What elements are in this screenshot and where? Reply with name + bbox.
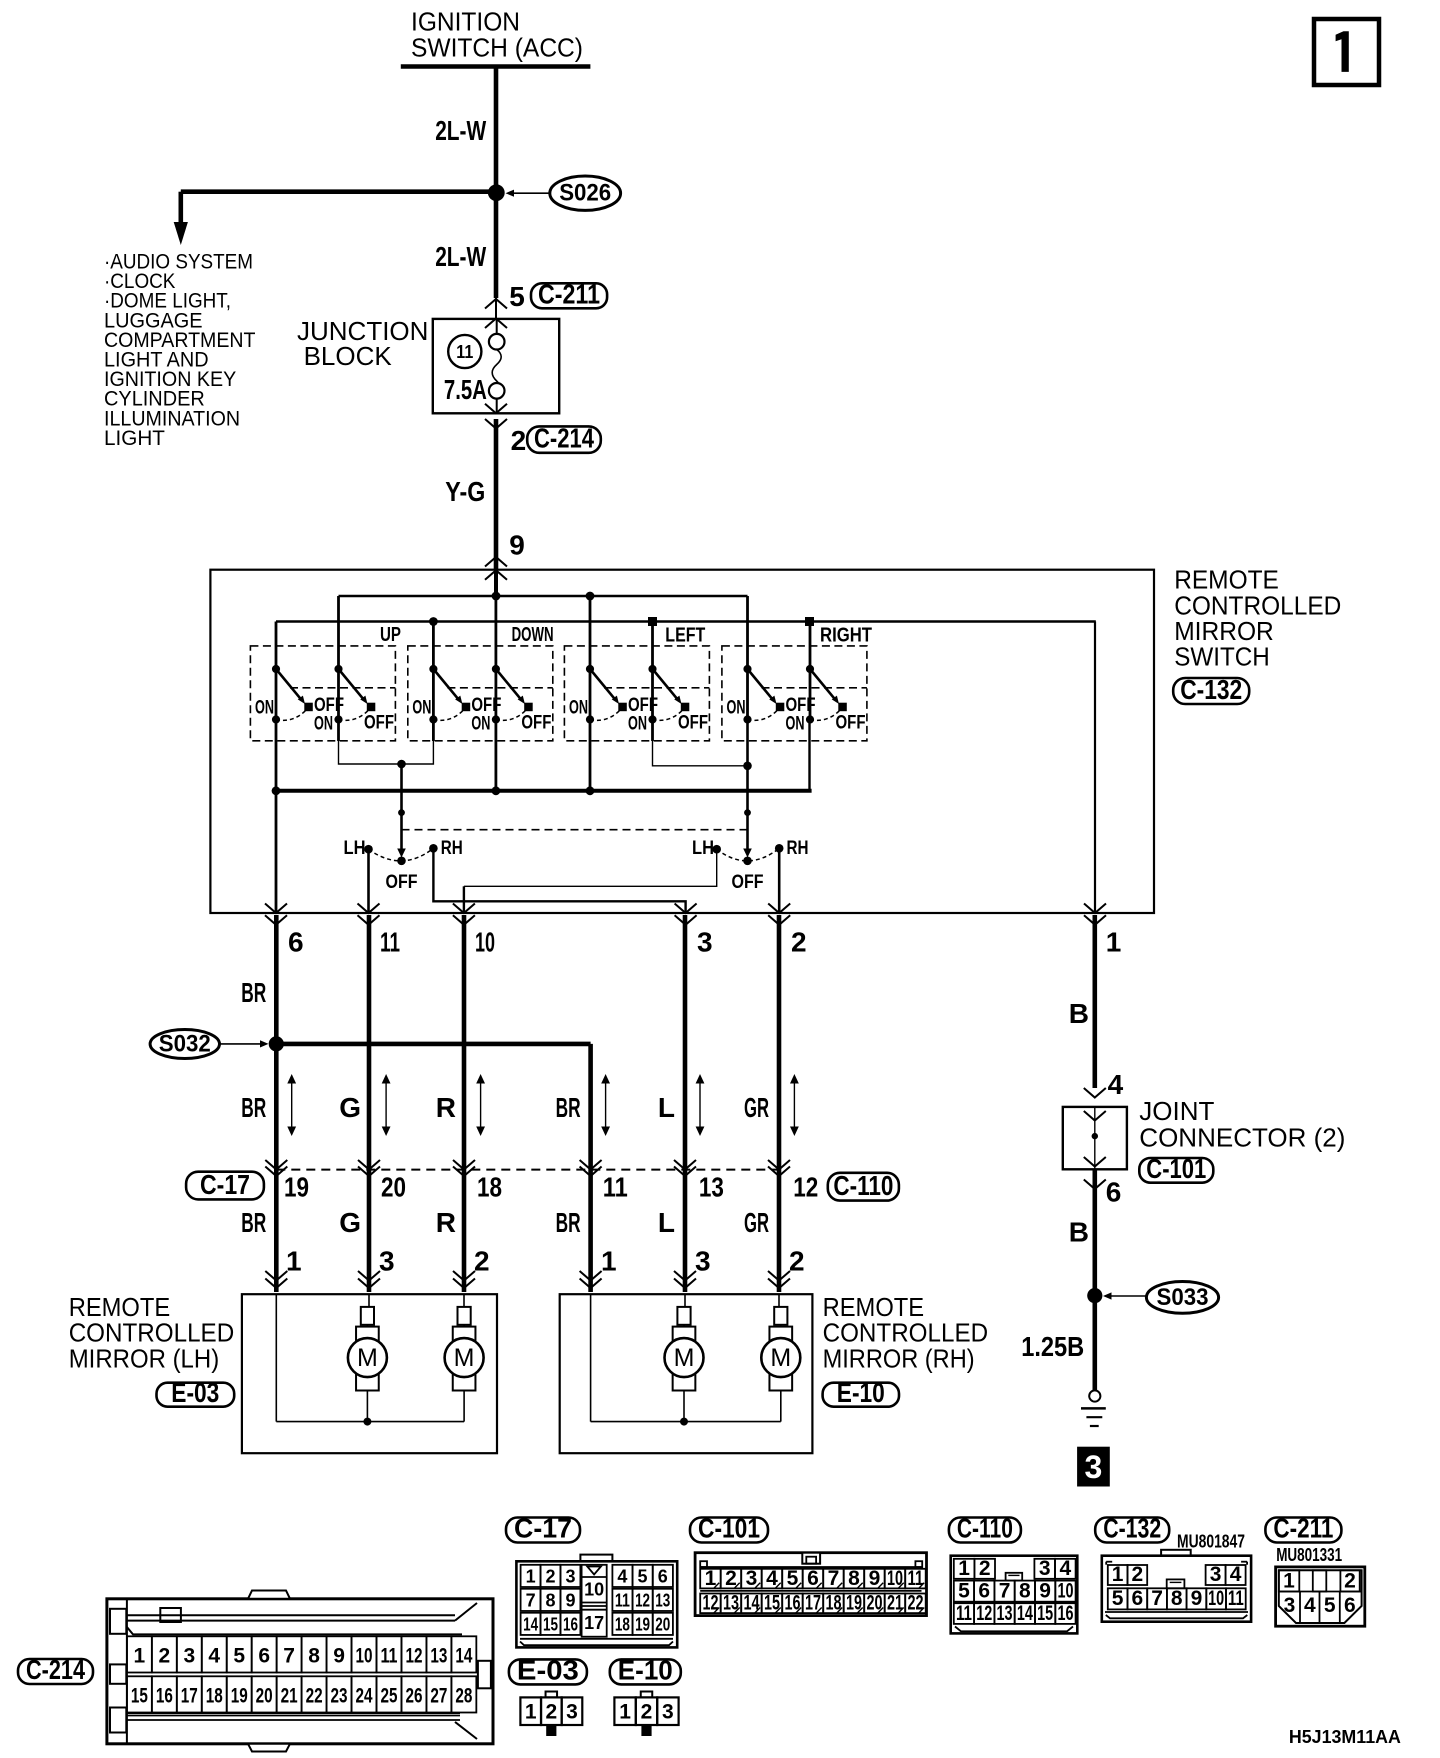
wire range arrow (382, 1074, 391, 1136)
connector crossing chevrons into mirror (453, 1271, 475, 1288)
svg-text:2: 2 (546, 1701, 558, 1724)
svg-text:SWITCH (ACC): SWITCH (ACC) (411, 33, 583, 63)
wire colour label BR upper (556, 1092, 581, 1123)
svg-text:6: 6 (1132, 1587, 1144, 1610)
wire label 2L-W lower (435, 241, 486, 272)
svg-text:2: 2 (979, 1557, 991, 1580)
svg-text:20: 20 (655, 1615, 670, 1635)
svg-text:12: 12 (405, 1644, 422, 1667)
svg-text:L: L (658, 1092, 675, 1123)
connector crossing chevrons into mirror (674, 1271, 696, 1288)
svg-text:9: 9 (1191, 1587, 1203, 1610)
switch UP sw2 OFF contact (367, 703, 375, 711)
link LEFT sw2 to RIGHT sw1 node (653, 720, 748, 766)
svg-text:M: M (674, 1344, 695, 1372)
svg-text:SWITCH: SWITCH (1174, 642, 1270, 672)
switch RIGHT sw1 feed column (746, 596, 749, 720)
switch LEFT sw2 ON contact dot (648, 715, 656, 723)
motor M horizontal RH (761, 1325, 800, 1422)
switch RIGHT sw1 OFF contact (776, 703, 784, 711)
svg-text:3: 3 (697, 927, 713, 958)
switch UP sw1 arm (276, 669, 305, 704)
pin 2 label (511, 425, 527, 456)
fuse number circle 11 (448, 335, 481, 368)
switch RIGHT sw1 pivot dot (743, 665, 751, 673)
switch DOWN sw1 arm (433, 669, 462, 704)
switch DOWN sw2 ON contact dot (492, 715, 500, 723)
switch group DOWN dashed box (408, 646, 553, 741)
svg-text:3: 3 (183, 1644, 195, 1667)
part number MU801847 (1177, 1531, 1245, 1551)
svg-text:7: 7 (828, 1567, 840, 1590)
wire range arrow (696, 1074, 705, 1136)
svg-text:E-03: E-03 (517, 1655, 579, 1686)
svg-text:C-132: C-132 (1103, 1513, 1161, 1544)
connector crossing chevrons at C-17/C-110 (265, 1160, 287, 1176)
svg-text:18: 18 (615, 1615, 630, 1635)
joint connector label (1139, 1096, 1345, 1153)
svg-text:14: 14 (743, 1592, 759, 1615)
switch RIGHT sw1 travel arc (748, 709, 780, 721)
svg-text:7: 7 (283, 1644, 295, 1667)
svg-text:11: 11 (956, 1602, 972, 1625)
svg-text:C-214: C-214 (534, 423, 594, 454)
motor M vertical RH (665, 1325, 704, 1422)
switch bus lower (276, 620, 1096, 623)
switch RIGHT label ON row2 (786, 713, 805, 735)
switch UP sw2 travel arc (339, 709, 371, 721)
svg-text:LH: LH (692, 837, 714, 859)
svg-text:14: 14 (1017, 1602, 1033, 1625)
svg-text:3: 3 (746, 1567, 758, 1590)
svg-text:3: 3 (1210, 1563, 1222, 1586)
svg-text:C-17: C-17 (200, 1169, 250, 1200)
wire colour label BR lower (556, 1207, 581, 1238)
connector label E-03 pinout (509, 1655, 587, 1686)
connector label C-211 pinout (1265, 1513, 1341, 1544)
accessory systems list (104, 251, 256, 450)
svg-text:11: 11 (1228, 1587, 1244, 1610)
joint connector internal wire (1094, 1107, 1096, 1169)
selector 2 label RH (787, 837, 809, 859)
connector label C-17 pinout (506, 1513, 580, 1544)
connector crossing chevrons pin 3 of C-132 (675, 904, 697, 925)
wire R from pin 10 (462, 915, 467, 1292)
bus junction dot DOWN sw1 (429, 617, 438, 626)
svg-text:5: 5 (638, 1567, 648, 1587)
motor M horizontal LH terminal box (458, 1307, 471, 1325)
svg-text:7: 7 (526, 1591, 536, 1611)
wire GR from pin 2 (777, 915, 782, 1292)
pin number 12 at C-17/C-110 (793, 1172, 818, 1203)
svg-text:19: 19 (635, 1615, 650, 1635)
svg-text:8: 8 (1019, 1580, 1031, 1603)
wire colour label G lower (339, 1207, 361, 1238)
wire 2L-W lower segment (494, 193, 499, 319)
svg-text:10: 10 (475, 927, 495, 958)
switch LEFT sw1 feed column (589, 596, 592, 720)
switch RIGHT sw2 ON contact dot (806, 715, 814, 723)
switch group RIGHT dashed box (722, 646, 867, 741)
joint connector box C-101 (1063, 1107, 1127, 1169)
selector 1 label RH (441, 837, 463, 859)
svg-text:13: 13 (655, 1591, 670, 1611)
svg-text:ON: ON (471, 713, 490, 735)
svg-text:3: 3 (1284, 1594, 1296, 1617)
connector label C-132 at switch (1173, 674, 1249, 705)
wire colour label G upper (339, 1092, 361, 1123)
svg-text:17: 17 (805, 1592, 821, 1615)
svg-text:C-211: C-211 (1273, 1513, 1333, 1544)
switch LEFT label ON row2 (628, 713, 647, 735)
svg-text:12: 12 (793, 1172, 818, 1203)
svg-text:C-110: C-110 (957, 1513, 1013, 1544)
arrow from S033 to splice (1103, 1292, 1146, 1299)
svg-text:15: 15 (1037, 1602, 1053, 1625)
svg-text:ON: ON (628, 713, 647, 735)
switch LEFT sw1 OFF contact (619, 703, 627, 711)
svg-text:11: 11 (603, 1172, 628, 1203)
selector 2 travel arc (717, 848, 780, 861)
remote controlled mirror RH box E-10 (560, 1294, 813, 1453)
switch group LEFT inner dashed line (604, 687, 709, 689)
mirror LH bus dot (363, 1418, 371, 1426)
pin number 3 at mirror (379, 1246, 395, 1277)
connector crossing chevrons at C-17/C-110 (674, 1160, 696, 1176)
svg-text:6: 6 (258, 1644, 270, 1667)
connector label C-110 pinout (949, 1513, 1021, 1544)
connector label C-101 at joint (1139, 1153, 1213, 1184)
drawing number H5J13M11AA (1289, 1727, 1401, 1747)
switch RIGHT label OFF row1 (786, 694, 816, 716)
pin 6 label (1106, 1177, 1122, 1208)
wire BR branch from S032 (276, 1044, 590, 1292)
svg-text:2L-W: 2L-W (435, 241, 486, 272)
svg-text:1: 1 (134, 1644, 146, 1667)
selector 2 pole contact dot (743, 857, 752, 866)
switch group DOWN inner dashed line (447, 687, 552, 689)
joint connector chevron top (1084, 1111, 1106, 1121)
switch group UP dashed box (250, 646, 395, 741)
svg-text:9: 9 (509, 530, 525, 561)
switch LEFT label OFF row1 (628, 694, 658, 716)
svg-text:2: 2 (1132, 1563, 1144, 1586)
svg-text:ON: ON (786, 713, 805, 735)
svg-text:ON: ON (727, 697, 746, 719)
fuse rating label 7.5A (444, 374, 487, 405)
wire range arrow (790, 1074, 799, 1136)
pin number 3 at mirror (695, 1246, 711, 1277)
wire label Y-G (445, 476, 485, 507)
connector pinout C-17 (516, 1555, 677, 1648)
connector crossing chevrons pin 11 of C-132 (358, 904, 380, 925)
selector 2 label LH (692, 837, 714, 859)
selector 1 label OFF (386, 871, 418, 893)
svg-text:12: 12 (635, 1591, 650, 1611)
svg-text:R: R (436, 1207, 456, 1238)
svg-text:19: 19 (284, 1172, 309, 1203)
motor M horizontal RH terminal box (774, 1307, 787, 1325)
svg-text:10: 10 (1057, 1580, 1073, 1603)
wire branch to accessories (181, 192, 494, 224)
LEFT sw1 column to common bus (589, 720, 592, 791)
link UP sw2 to DOWN sw1 (339, 720, 434, 765)
switch RIGHT sw2 travel arc (810, 709, 842, 721)
svg-text:M: M (770, 1344, 791, 1372)
arrow from S026 to splice (506, 190, 550, 197)
selector 2 feed dot (743, 762, 752, 771)
switch DOWN label OFF row1 (471, 694, 501, 716)
group label DOWN (512, 624, 554, 646)
selector 1 LH contact (364, 845, 373, 854)
connector crossing chevrons at C-17/C-110 (768, 1160, 790, 1176)
switch LEFT sw1 travel arc (590, 709, 622, 721)
wire colour label R upper (436, 1092, 456, 1123)
switch LEFT sw1 ON contact dot (586, 715, 594, 723)
mirror LH label (69, 1292, 235, 1373)
svg-text:S032: S032 (159, 1031, 211, 1058)
pin number 1 at switch (1106, 927, 1122, 958)
svg-text:5: 5 (1112, 1587, 1124, 1610)
connector crossing chevrons into mirror (265, 1271, 287, 1288)
svg-text:16: 16 (784, 1592, 800, 1615)
pin 9 label (509, 530, 525, 561)
svg-text:RIGHT: RIGHT (820, 625, 872, 647)
svg-text:8: 8 (1171, 1587, 1183, 1610)
mirror RH vertical motor wire in (684, 1294, 686, 1307)
ground symbol (1081, 1390, 1106, 1426)
switch group UP inner dashed line (290, 687, 395, 689)
splice S026 ellipse (550, 176, 621, 210)
svg-text:RH: RH (441, 837, 463, 859)
svg-text:OFF: OFF (364, 712, 394, 734)
selector 1 pole wire (398, 764, 405, 849)
fuse 7.5A symbol (489, 319, 505, 413)
svg-text:LH: LH (344, 837, 366, 859)
wire label B lower (1069, 1217, 1089, 1248)
svg-text:3: 3 (565, 1567, 575, 1587)
switch UP sw2 ON contact dot (334, 715, 342, 723)
svg-text:E-03: E-03 (171, 1377, 219, 1408)
svg-text:C-101: C-101 (698, 1513, 760, 1544)
pin 1 internal wire (1094, 622, 1096, 914)
pin number 11 at switch (380, 927, 400, 958)
joint connector chevron bottom (1084, 1157, 1106, 1167)
svg-text:RH: RH (787, 837, 809, 859)
switch RIGHT label OFF row2 (836, 712, 866, 734)
svg-text:B: B (1069, 1217, 1089, 1248)
switch LEFT sw2 arm (653, 669, 682, 704)
connector crossing chevrons into mirror switch (485, 557, 507, 580)
svg-text:1.25B: 1.25B (1021, 1331, 1084, 1362)
remote controlled mirror switch box C-132 (210, 570, 1154, 913)
pin 4 label (1108, 1069, 1124, 1100)
splice S032 ellipse (150, 1030, 219, 1059)
connector pinout C-132 (1102, 1550, 1251, 1622)
connector crossing chevrons at C-17/C-110 (580, 1160, 602, 1176)
switch DOWN sw2 travel arc (496, 709, 528, 721)
svg-text:19: 19 (231, 1684, 248, 1707)
svg-text:18: 18 (825, 1592, 841, 1615)
svg-text:11: 11 (907, 1567, 923, 1590)
svg-text:S033: S033 (1157, 1284, 1209, 1311)
svg-text:4: 4 (1108, 1069, 1124, 1100)
svg-text:LEFT: LEFT (665, 625, 705, 647)
svg-text:2: 2 (511, 425, 527, 456)
svg-text:21: 21 (281, 1684, 298, 1707)
switch group RIGHT inner dashed line (762, 687, 867, 689)
svg-text:E-10: E-10 (837, 1377, 885, 1408)
svg-text:4: 4 (766, 1567, 778, 1590)
connector label E-10 (823, 1377, 899, 1408)
switch RIGHT sw1 arm (748, 669, 777, 704)
svg-text:20: 20 (866, 1592, 882, 1615)
selector 1 travel arc (369, 848, 434, 861)
pin number 6 at switch (288, 927, 304, 958)
mirror LH feed wire (275, 1294, 277, 1421)
mirror switch name label (1174, 565, 1341, 672)
svg-text:BR: BR (556, 1092, 581, 1123)
pin number 11 at C-17/C-110 (603, 1172, 628, 1203)
switch RIGHT sw2 arm (810, 669, 839, 704)
connector crossing chevron above joint connector (1084, 1088, 1106, 1098)
svg-text:9: 9 (1039, 1580, 1051, 1603)
junction block label (297, 316, 428, 371)
svg-text:13: 13 (723, 1592, 739, 1615)
ignition switch bus bar (401, 64, 591, 69)
wire 2L-W upper segment (494, 66, 499, 192)
connector crossing chevrons into mirror (358, 1271, 380, 1288)
switch DOWN sw1 travel arc (433, 709, 465, 721)
wire selector1 RH to pin 3 (433, 848, 685, 913)
RIGHT sw1 column to selector 2 pole (746, 720, 749, 850)
svg-text:11: 11 (456, 342, 473, 362)
wire colour label L upper (658, 1092, 675, 1123)
svg-text:5: 5 (1324, 1594, 1336, 1617)
svg-text:5: 5 (509, 281, 525, 312)
svg-text:24: 24 (356, 1684, 373, 1707)
connector C-17/C-110 dashed line (276, 1169, 779, 1171)
svg-text:BLOCK: BLOCK (304, 341, 393, 371)
svg-text:2: 2 (725, 1567, 737, 1590)
svg-text:2: 2 (789, 1246, 805, 1277)
svg-text:C-17: C-17 (514, 1513, 572, 1544)
svg-text:C-101: C-101 (1146, 1153, 1206, 1184)
svg-text:B: B (1069, 998, 1089, 1029)
mirror RH label (823, 1292, 989, 1373)
group label RIGHT (820, 625, 872, 647)
pin number 3 at switch (697, 927, 713, 958)
wire label B upper (1069, 998, 1089, 1029)
svg-text:M: M (454, 1344, 475, 1372)
connector crossing chevron below joint connector (1084, 1180, 1106, 1190)
RIGHT sw2 column down (808, 720, 810, 791)
svg-text:2: 2 (158, 1644, 170, 1667)
svg-text:3: 3 (662, 1701, 674, 1724)
switch DOWN sw1 ON contact dot (429, 715, 437, 723)
ignition switch (ACC) label (411, 7, 583, 63)
switch UP sw2 feed column (337, 596, 340, 720)
selector 2 LH contact (712, 845, 721, 854)
svg-text:4: 4 (208, 1644, 220, 1667)
switch DOWN sw1 pivot dot (429, 665, 437, 673)
switch LEFT sw2 feed column (651, 622, 654, 720)
svg-text:ON: ON (412, 697, 431, 719)
connector label E-03 (157, 1377, 235, 1408)
svg-text:2L-W: 2L-W (435, 115, 486, 146)
svg-text:5: 5 (233, 1644, 245, 1667)
svg-text:GR: GR (744, 1092, 769, 1123)
bus junction square LEFT sw2 (649, 618, 657, 626)
svg-text:6: 6 (1106, 1177, 1122, 1208)
part number MU801331 (1276, 1545, 1342, 1565)
connector label C-132 pinout (1095, 1513, 1169, 1544)
switch bus upper (339, 595, 748, 598)
svg-text:5: 5 (958, 1580, 970, 1603)
connector crossing chevrons pin 10 of C-132 (453, 904, 475, 925)
pin number 1 at mirror (601, 1246, 617, 1277)
svg-text:1: 1 (286, 1246, 302, 1277)
svg-text:1: 1 (526, 1567, 536, 1587)
connector crossing chevrons pin 2 of C-132 (768, 904, 790, 925)
switch LEFT label OFF row2 (678, 712, 708, 734)
mirror RH horizontal motor wire in (778, 1294, 780, 1307)
switch RIGHT sw2 feed column (809, 622, 812, 720)
pin 5 label (509, 281, 525, 312)
wire colour label BR upper (241, 1092, 266, 1123)
wire label 1.25B (1021, 1331, 1084, 1362)
switch DOWN sw2 arm (496, 669, 525, 704)
switch DOWN sw2 OFF contact (525, 703, 533, 711)
svg-text:C-132: C-132 (1180, 674, 1242, 705)
pin number 10 at switch (475, 927, 495, 958)
svg-text:3: 3 (379, 1246, 395, 1277)
svg-text:19: 19 (846, 1592, 862, 1615)
bus junction dot at feed (492, 592, 501, 601)
selector 1 RH contact (429, 844, 438, 853)
connector crossing chevrons into mirror (580, 1271, 602, 1288)
svg-text:2: 2 (791, 927, 807, 958)
common bus dot LEFT sw1 (586, 786, 595, 795)
switch LEFT sw1 arm (590, 669, 619, 704)
svg-text:1: 1 (601, 1246, 617, 1277)
switch LEFT sw1 pivot dot (586, 665, 594, 673)
svg-text:M: M (357, 1344, 378, 1372)
switch RIGHT sw1 ON contact dot (743, 715, 751, 723)
svg-text:JOINT: JOINT (1139, 1096, 1214, 1126)
connector label C-214 (527, 423, 601, 454)
mirror RH bus dot (680, 1418, 688, 1426)
svg-text:OFF: OFF (732, 871, 764, 893)
svg-text:G: G (339, 1207, 361, 1238)
switch RIGHT sw2 OFF contact (839, 703, 847, 711)
svg-text:3: 3 (1085, 1449, 1103, 1485)
switch LEFT sw2 pivot dot (648, 665, 656, 673)
svg-text:1: 1 (619, 1701, 631, 1724)
switch UP sw1 OFF contact (305, 703, 313, 711)
connector pinout C-214 (107, 1591, 493, 1752)
svg-text:ON: ON (569, 697, 588, 719)
pin number 13 at C-17/C-110 (699, 1172, 724, 1203)
mechanical link dashed line (402, 829, 748, 831)
wire colour label GR lower (744, 1207, 769, 1238)
svg-text:16: 16 (1057, 1602, 1073, 1625)
wire L from pin 3 (683, 915, 688, 1292)
svg-text:23: 23 (331, 1684, 348, 1707)
svg-text:MU801331: MU801331 (1276, 1545, 1342, 1565)
wire selector1 LH to pin 11 (367, 849, 370, 913)
switch DOWN sw1 feed column (432, 622, 435, 720)
